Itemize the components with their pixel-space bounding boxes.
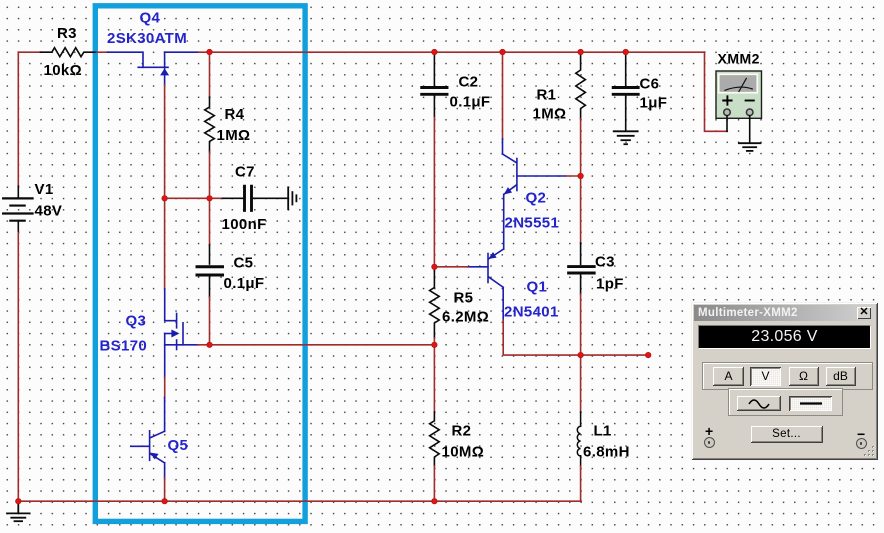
- capacitor C7: [223, 186, 288, 210]
- wire: C5 top lead: [209, 198, 211, 245]
- svg-text:R2: R2: [452, 423, 472, 440]
- svg-text:R5: R5: [454, 290, 474, 307]
- inductor L1: [577, 412, 580, 466]
- junction: R5 bottom / R2 top: [432, 342, 437, 347]
- wire: Q1 base from node: [434, 266, 467, 268]
- svg-text:L1: L1: [594, 423, 612, 440]
- wire: Q3 source out to R5/R2 column: [198, 344, 435, 346]
- selection box (blue highlight rectangle): [95, 6, 305, 522]
- svg-text:C2: C2: [459, 74, 479, 91]
- svg-text:2N5401: 2N5401: [504, 304, 559, 321]
- resistor R2: [430, 412, 440, 466]
- junction: R4 bottom / C7 node: [207, 196, 212, 201]
- svg-text:BS170: BS170: [100, 338, 148, 355]
- wire: R4 bottom to C7 node: [209, 152, 211, 198]
- wire: R5 bottom to node: [433, 338, 435, 412]
- wire: R1 bottom to node: [580, 119, 582, 176]
- junction: bottom rail / Q5 emitter: [162, 499, 167, 504]
- ground (below XMM2): [739, 143, 761, 151]
- Multimeter-XMM2 dialog window: [691, 302, 878, 460]
- transistor Q1 (PNP 2N5401): [468, 242, 504, 320]
- resistor R3: [41, 48, 97, 57]
- wire: left rail upper: [17, 52, 19, 186]
- junction: top rail / R1: [578, 49, 583, 54]
- wire: rail to multimeter plus terminal: [705, 52, 728, 131]
- wire: bottom rail: [18, 500, 581, 502]
- junction: R1 bottom / Q2 base / C3: [578, 173, 583, 178]
- svg-text:10kΩ: 10kΩ: [44, 62, 82, 79]
- wire: R4 top lead from rail: [209, 52, 211, 97]
- svg-text:XMM2: XMM2: [718, 51, 760, 67]
- wire: L1 bottom to rail: [580, 466, 582, 501]
- wire: C7 node horizontal: [165, 197, 223, 199]
- svg-text:2SK30ATM: 2SK30ATM: [107, 30, 187, 47]
- svg-text:10MΩ: 10MΩ: [442, 444, 485, 461]
- junction: Q1 collector / C3 / L1: [578, 352, 583, 357]
- svg-text:0.1μF: 0.1μF: [224, 275, 265, 292]
- ground (right of C7, sideways): [288, 187, 296, 209]
- multimeter XMM2 icon: [716, 71, 762, 143]
- wire: C3 bottom to output node: [580, 294, 582, 355]
- junction: top rail / C2: [432, 49, 437, 54]
- transistor Q5 (PNP): [131, 397, 165, 478]
- svg-text:C6: C6: [640, 76, 660, 93]
- wire: Q2 base to R1 bottom node: [566, 175, 581, 177]
- svg-text:1pF: 1pF: [596, 276, 624, 293]
- wire: node down to C3: [580, 176, 582, 243]
- wire: Q1 collector down and across to output node: [503, 320, 648, 355]
- svg-text:R4: R4: [225, 106, 245, 123]
- wire: C5 bottom to Q3 source node: [209, 297, 211, 345]
- junction: top rail / C6: [623, 49, 628, 54]
- svg-text:R1: R1: [537, 87, 557, 104]
- battery V1: [3, 186, 32, 233]
- resistor R5: [430, 271, 440, 339]
- svg-text:Q4: Q4: [140, 10, 161, 27]
- wire: top rail left segment: [18, 51, 40, 53]
- wire: Q2 collector from rail: [502, 52, 504, 139]
- svg-text:2N5551: 2N5551: [505, 215, 560, 232]
- capacitor C6: [613, 52, 638, 130]
- ground (below C6): [614, 131, 638, 144]
- wire: top rail main run: [199, 51, 705, 53]
- svg-text:C7: C7: [235, 164, 255, 181]
- wire: left rail lower: [17, 233, 19, 502]
- wire: stub between R3 and Q4 gate: [97, 51, 108, 53]
- svg-text:6.8mH: 6.8mH: [583, 444, 630, 461]
- junction: bottom rail / V1 / ground: [16, 499, 21, 504]
- svg-text:100nF: 100nF: [222, 216, 267, 233]
- transistor Q3 (BS170 MOSFET): [165, 289, 198, 378]
- wire: R2 bottom to rail: [433, 466, 435, 501]
- transistor Q4 (JFET 2SK30ATM): [108, 52, 199, 84]
- svg-text:V1: V1: [35, 181, 54, 198]
- svg-text:1μF: 1μF: [640, 95, 668, 112]
- node: output wire end: [646, 352, 651, 357]
- wire: Q3 down to Q5 collector: [164, 378, 166, 398]
- capacitor C2: [422, 52, 447, 117]
- svg-text:Q1: Q1: [527, 279, 548, 296]
- svg-text:C5: C5: [234, 255, 254, 272]
- svg-text:Q3: Q3: [126, 313, 147, 330]
- junction: C5 bottom / Q3 source wire: [207, 342, 212, 347]
- wire: output node down to L1: [580, 355, 582, 412]
- svg-text:1MΩ: 1MΩ: [533, 106, 567, 123]
- wire: C2 bottom to Q1 base node: [433, 117, 435, 270]
- resistor R4: [205, 97, 215, 152]
- capacitor C3: [569, 243, 595, 294]
- junction: top rail / R4: [207, 49, 212, 54]
- junction: C2 / R5 / Q1 base: [432, 264, 437, 269]
- svg-text:48V: 48V: [35, 203, 63, 220]
- svg-text:C3: C3: [595, 254, 615, 271]
- svg-text:1MΩ: 1MΩ: [217, 127, 251, 144]
- ground (bottom left): [7, 501, 30, 521]
- resistor R1: [576, 52, 586, 119]
- svg-text:Q5: Q5: [168, 437, 189, 454]
- wire: Q5 emitter to bottom rail: [164, 478, 166, 501]
- wire: Q4 source down to C7 node and on to Q3: [164, 84, 166, 289]
- junction: bottom rail / R2: [432, 499, 437, 504]
- junction: Q4 source / C7 node: [162, 196, 167, 201]
- transistor Q2 (NPN 2N5551): [503, 139, 567, 242]
- junction: top rail / Q2 collector: [500, 49, 505, 54]
- capacitor C5: [197, 245, 223, 297]
- svg-text:0.1μF: 0.1μF: [450, 94, 491, 111]
- svg-text:R3: R3: [57, 25, 77, 42]
- svg-text:Q2: Q2: [526, 190, 547, 207]
- svg-text:6.2MΩ: 6.2MΩ: [442, 309, 489, 326]
